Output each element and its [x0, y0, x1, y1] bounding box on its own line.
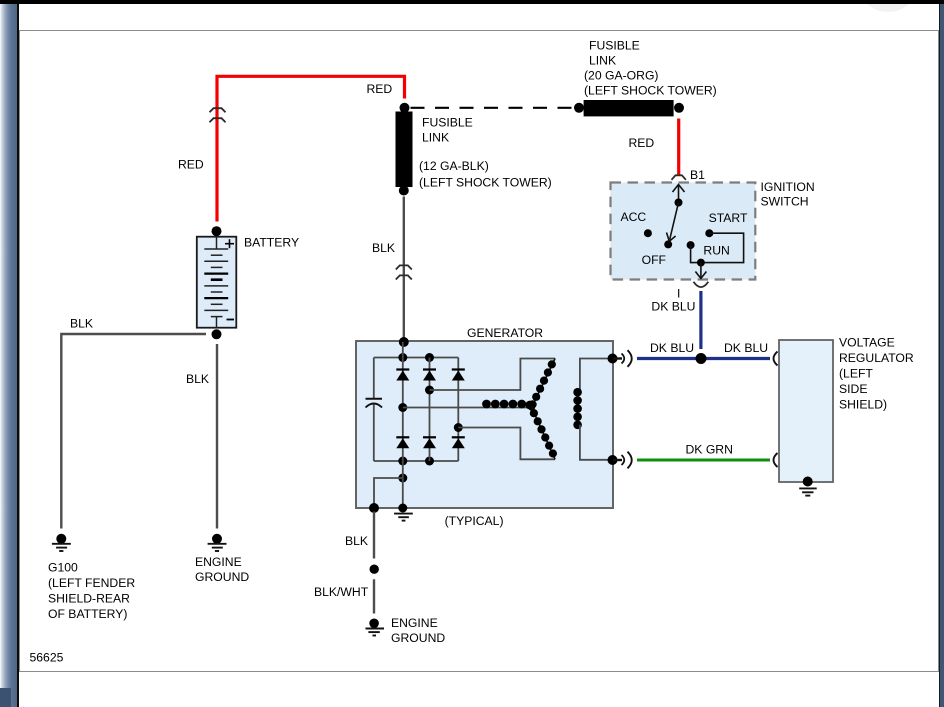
svg-text:REGULATOR: REGULATOR	[839, 351, 914, 365]
wire: START to output junction	[701, 233, 744, 262]
battery minus sign	[227, 319, 235, 321]
svg-text:RUN: RUN	[703, 244, 729, 258]
node: battery negative terminal	[212, 329, 222, 339]
node: ACC terminal	[644, 229, 652, 237]
label ENGINE GROUND (center)	[391, 616, 445, 645]
svg-text:G100: G100	[48, 561, 78, 575]
node: phase C tap on col3	[454, 423, 463, 432]
svg-text:OF BATTERY): OF BATTERY)	[48, 607, 127, 621]
node: junction at fusible link 1 bottom	[399, 186, 409, 196]
svg-text:ENGINE: ENGINE	[391, 616, 438, 630]
node: top rail junction col2	[425, 353, 434, 362]
generator box	[356, 341, 613, 508]
svg-text:LINK: LINK	[589, 54, 616, 68]
node: junction at fusible link 2 right	[674, 103, 684, 113]
switch arm: arrow up to B1	[673, 185, 685, 203]
connector arc below ignition switch	[694, 282, 709, 287]
svg-text:RED: RED	[178, 158, 204, 172]
label VOLTAGE REGULATOR (LEFT SIDE SHIELD)	[839, 336, 914, 412]
svg-text:GROUND: GROUND	[195, 570, 249, 584]
switch arm: rotor toward OFF with arrowhead	[667, 203, 679, 242]
wire: BLK/WHT to engine ground	[373, 579, 375, 613]
connector B1 arc at ignition switch	[672, 175, 686, 180]
node: switch common	[675, 199, 683, 207]
connector arc at voltage regulator (DK BLU)	[774, 352, 778, 366]
svg-text:(LEFT: (LEFT	[839, 367, 873, 381]
generator case ground symbol	[394, 504, 413, 521]
svg-text:(TYPICAL): (TYPICAL)	[445, 514, 504, 528]
svg-text:BLK: BLK	[345, 534, 368, 548]
svg-text:I: I	[677, 287, 680, 301]
svg-text:BATTERY: BATTERY	[244, 236, 299, 250]
wire: rectifier top rail	[374, 357, 459, 359]
rotor field winding feed (top)	[580, 359, 608, 390]
label IGNITION SWITCH	[761, 180, 815, 209]
connector half pair on DK BLU at generator	[613, 350, 632, 367]
node: junction at fusible link 1 top	[400, 103, 410, 113]
ground symbol (engine ground, battery)	[208, 534, 227, 551]
break symbol on BLK wire	[396, 265, 412, 279]
svg-text:(20 GA-ORG): (20 GA-ORG)	[584, 69, 659, 83]
stator winding 3 (bottom diagonal with coil bumps)	[530, 407, 557, 459]
svg-text:B1: B1	[690, 168, 705, 182]
svg-text:ACC: ACC	[621, 210, 647, 224]
node: RUN terminal	[687, 241, 695, 249]
node: BLK exit on generator bottom edge	[369, 503, 379, 513]
svg-text:GROUND: GROUND	[391, 631, 445, 645]
stator winding 2 (middle horizontal with coil bumps)	[482, 400, 534, 410]
diode D4 (bottom col1)	[396, 437, 409, 448]
wire: BLK battery negative to engine ground	[216, 344, 218, 529]
svg-text:DK BLU: DK BLU	[651, 300, 695, 314]
node: bottom rail junction col2	[425, 457, 434, 466]
node: OFF terminal	[664, 240, 672, 248]
node: junction at fusible link 2 left	[574, 103, 584, 113]
node: generator B+ entry on top edge	[399, 337, 409, 347]
fusible link 1 body (12 GA-BLK)	[396, 112, 413, 188]
node: switch output junction	[697, 259, 705, 267]
svg-text:IGNITION: IGNITION	[761, 180, 815, 194]
svg-text:SHIELD): SHIELD)	[839, 398, 887, 412]
wire: RUN to output junction	[691, 245, 701, 263]
svg-text:SWITCH: SWITCH	[761, 195, 809, 209]
node: col1 lower junction to grounds	[398, 474, 407, 483]
svg-text:(12 GA-BLK): (12 GA-BLK)	[419, 159, 489, 173]
wire: DK BLU generator to junction to regulator	[637, 357, 770, 360]
capacitor branch wire (top)	[373, 358, 375, 399]
wire: phase A to stator	[430, 359, 556, 391]
diode D2 (top col2)	[423, 370, 436, 381]
diode D6 (bottom col3)	[452, 437, 465, 448]
node: START terminal	[705, 229, 713, 237]
battery cell plates	[204, 237, 228, 328]
svg-text:DK GRN: DK GRN	[686, 443, 733, 457]
svg-text:LINK: LINK	[422, 131, 449, 145]
svg-text:FUSIBLE: FUSIBLE	[422, 116, 473, 130]
capacitor branch wire (bottom)	[373, 405, 375, 462]
node: phase A tap on col2	[425, 386, 434, 395]
label: FUSIBLE LINK (20 GA-ORG) (LEFT SHOCK TOWER)	[584, 39, 717, 98]
wire: phase B to stator	[403, 407, 532, 409]
svg-text:RED: RED	[629, 136, 655, 150]
rotor field coil bumps	[573, 388, 582, 429]
diode D3 (top col3)	[452, 370, 465, 381]
battery plus sign	[225, 239, 234, 248]
wire: DK GRN generator to regulator	[637, 459, 770, 462]
ground G100 symbol	[52, 534, 71, 551]
svg-text:OFF: OFF	[642, 253, 666, 267]
ground symbol (voltage regulator case)	[799, 477, 817, 496]
stator winding 1 (top diagonal with coil bumps)	[529, 359, 556, 409]
rotor field winding return (bottom)	[580, 425, 608, 460]
ground symbol (engine ground, generator)	[366, 619, 385, 636]
wire: rectifier column 2	[429, 358, 431, 462]
wire: BLK battery negative to G100 ground	[61, 334, 206, 529]
node: generator output terminal (field, top right)	[608, 354, 618, 364]
svg-text:DK BLU: DK BLU	[724, 341, 768, 355]
wire: DK BLU from ignition switch down to junction	[699, 291, 702, 349]
svg-text:56625: 56625	[30, 651, 64, 665]
svg-text:(LEFT SHOCK TOWER): (LEFT SHOCK TOWER)	[419, 176, 552, 190]
svg-text:VOLTAGE: VOLTAGE	[839, 336, 895, 350]
wire: rectifier column 3	[457, 358, 459, 462]
ignition switch box	[611, 183, 756, 280]
label G100 (LEFT FENDER SHIELD-REAR OF BATTERY)	[48, 561, 135, 622]
switch output arrow down	[695, 263, 706, 279]
svg-text:(LEFT FENDER: (LEFT FENDER	[48, 576, 135, 590]
wire: rectifier column 1	[402, 342, 404, 461]
wire: rectifier bottom rail	[374, 460, 459, 462]
wire: BLK from fusible link 1 down to generator	[403, 197, 405, 340]
node: phase B tap on col1	[398, 403, 407, 412]
wire: phase C to stator	[458, 428, 555, 460]
svg-text:BLK/WHT: BLK/WHT	[314, 585, 369, 599]
node: stator Y center	[528, 404, 535, 411]
wire: RED from battery positive up and over to fusible link 1	[217, 76, 405, 221]
svg-text:FUSIBLE: FUSIBLE	[589, 39, 640, 53]
label: FUSIBLE LINK (12 GA-BLK) (LEFT SHOCK TOWER)	[419, 116, 552, 190]
wire: RED from fusible link 2 down to ignition switch B1	[677, 119, 680, 176]
svg-text:GENERATOR: GENERATOR	[467, 326, 543, 340]
svg-text:(LEFT SHOCK TOWER): (LEFT SHOCK TOWER)	[584, 84, 717, 98]
capacitor C (noise suppressor)	[366, 399, 383, 408]
svg-text:BLK: BLK	[70, 317, 93, 331]
node: bottom rail junction col1	[398, 457, 407, 466]
wire: branch to BLK exit	[374, 478, 403, 507]
battery box	[197, 237, 237, 328]
node: battery positive terminal	[212, 226, 222, 236]
svg-text:ENGINE: ENGINE	[195, 555, 242, 569]
node: top rail junction col1	[398, 353, 407, 362]
diode D5 (bottom col2)	[423, 437, 436, 448]
svg-text:START: START	[709, 211, 748, 225]
svg-text:BLK: BLK	[372, 241, 395, 255]
svg-text:RED: RED	[367, 82, 393, 96]
wire: dashed link between fusible links	[411, 107, 577, 109]
diode D1 (top col1)	[396, 370, 409, 381]
wire: BLK from generator to splice	[373, 512, 375, 559]
fusible link 2 body (20 GA-ORG)	[584, 100, 674, 116]
node: generator output terminal (stator, bottom right)	[608, 455, 618, 465]
label ENGINE GROUND (left)	[195, 555, 249, 584]
wire: col1 continues to generator case ground	[402, 461, 404, 507]
svg-text:DK BLU: DK BLU	[650, 341, 694, 355]
svg-text:SIDE: SIDE	[839, 382, 867, 396]
voltage regulator box	[779, 340, 833, 482]
svg-text:SHIELD-REAR: SHIELD-REAR	[48, 592, 130, 606]
connector half pair on DK GRN at generator	[613, 452, 632, 469]
connector arc at voltage regulator (DK GRN)	[774, 453, 778, 467]
svg-text:BLK: BLK	[186, 372, 209, 386]
node: splice BLK / BLK-WHT	[370, 565, 379, 574]
break symbol on RED wire	[210, 108, 226, 122]
node: DK BLU junction	[696, 353, 707, 364]
